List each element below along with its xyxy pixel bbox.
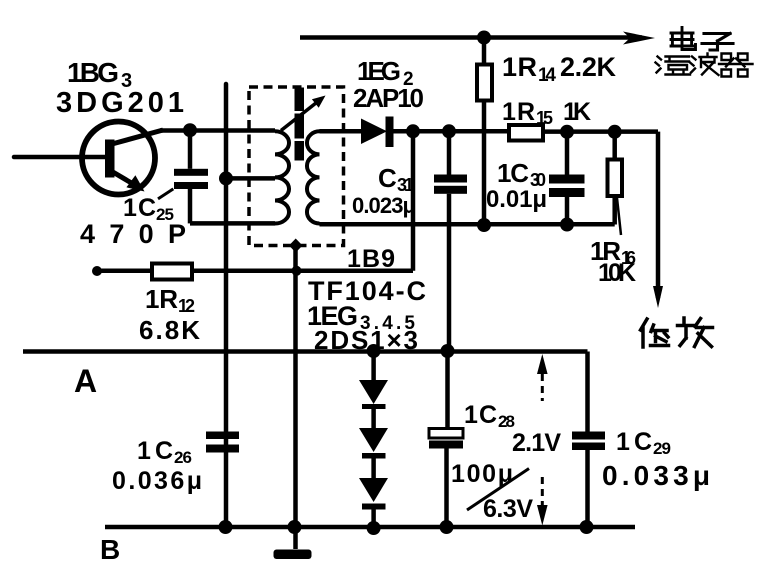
- emitter arrow: [112, 172, 134, 185]
- svg-text:0.023μ: 0.023μ: [352, 193, 416, 218]
- wire secondary top to diode: [320, 129, 362, 134]
- wire 1B9 feedback vertical: [411, 131, 416, 270]
- svg-text:1R: 1R: [502, 52, 537, 82]
- capacitor C30: [565, 132, 570, 175]
- transformer B9 shield box: [249, 87, 344, 246]
- label 子 (hand-drawn): [702, 34, 733, 51]
- core adjust arrow: [281, 101, 319, 131]
- resistor R15: [509, 125, 543, 141]
- node C30 bottom: [560, 218, 574, 232]
- transistor Q1 1BG3: [82, 122, 155, 195]
- label 器 (hand-drawn): [719, 54, 753, 77]
- node C31/line A: [441, 344, 455, 358]
- node C30 top: [560, 125, 574, 139]
- resistor R14: [482, 38, 487, 65]
- svg-text:2.2K: 2.2K: [560, 52, 617, 82]
- svg-text:1EG: 1EG: [357, 56, 401, 86]
- wire chain top: [371, 351, 376, 380]
- svg-text:1C: 1C: [497, 158, 529, 188]
- capacitor C26: [206, 432, 239, 440]
- wire shield to ground: [293, 246, 298, 550]
- diode D4: [359, 478, 388, 502]
- svg-text:10K: 10K: [598, 259, 636, 287]
- label 波 (hand-drawn): [690, 54, 719, 76]
- svg-text:1C: 1C: [616, 428, 652, 456]
- wire line B: [105, 525, 635, 530]
- svg-text:6.3V: 6.3V: [483, 495, 533, 523]
- node diode out: [406, 124, 420, 138]
- label 低 (hand-drawn): [641, 319, 669, 347]
- wire C25 bottom to primary: [190, 221, 275, 226]
- svg-text:B: B: [100, 534, 120, 565]
- wire tap to primary: [226, 176, 275, 181]
- leader R16 label: [617, 198, 621, 235]
- label 电 (hand-drawn): [671, 28, 696, 50]
- wire diode to R15: [394, 129, 510, 134]
- svg-text:C: C: [378, 163, 397, 193]
- transformer secondary winding: [307, 131, 320, 223]
- wire R12 rail: [97, 269, 413, 274]
- wire base lead: [14, 155, 105, 160]
- svg-text:0.036μ: 0.036μ: [112, 467, 202, 495]
- diode chain 1EG3.4.5 top node: [367, 344, 381, 358]
- node C28 bottom: [440, 520, 454, 534]
- svg-text:1K: 1K: [563, 98, 591, 126]
- svg-text:6.8K: 6.8K: [139, 315, 200, 345]
- wire collector: [112, 130, 163, 144]
- capacitor C28 electrolytic: [445, 351, 450, 429]
- node R14 bottom: [477, 218, 491, 232]
- transformer primary winding: [275, 131, 289, 223]
- svg-text:0.01μ: 0.01μ: [486, 186, 547, 213]
- svg-text:100μ: 100μ: [451, 460, 513, 488]
- svg-text:29: 29: [653, 439, 671, 458]
- svg-text:1C: 1C: [137, 437, 173, 465]
- slash 100u/6.3V: [467, 469, 529, 511]
- wire to 低放 arrow: [656, 132, 661, 298]
- node ground line: [288, 520, 302, 534]
- node C26 bottom: [219, 520, 233, 534]
- diode D2: [359, 380, 388, 404]
- svg-text:1C: 1C: [123, 194, 156, 222]
- wire top supply rail: [300, 35, 642, 40]
- transformer core (adjustable): [295, 88, 305, 112]
- diode D1 1EG2: [361, 119, 387, 145]
- wire bottom detector rail: [320, 222, 615, 227]
- svg-text:1R: 1R: [145, 284, 178, 314]
- measure arrow 2.1V lower: [541, 477, 544, 505]
- svg-text:12: 12: [178, 296, 195, 316]
- wire R14 bottom: [482, 101, 487, 226]
- svg-text:31: 31: [397, 175, 414, 195]
- label 滤 (hand-drawn): [656, 57, 691, 75]
- wire R12 left end: [92, 266, 102, 276]
- wire line A: [23, 349, 588, 354]
- resistor R16: [612, 132, 617, 160]
- svg-text:1C: 1C: [464, 401, 497, 429]
- wire collector rail: [160, 128, 275, 133]
- node shield/R12 crossing: [292, 266, 302, 276]
- wire R15 right to corner: [543, 129, 658, 134]
- svg-text:15: 15: [536, 108, 553, 128]
- node collector / C25: [183, 123, 197, 137]
- node shield diamond: [289, 239, 303, 253]
- diode D3: [359, 428, 388, 452]
- svg-text:A: A: [74, 363, 97, 399]
- capacitor C25: [188, 130, 193, 169]
- svg-text:2AP10: 2AP10: [353, 83, 424, 113]
- arrow to 电子滤波器: [623, 32, 655, 45]
- resistor R12: [152, 264, 192, 280]
- svg-text:2.1V: 2.1V: [512, 429, 561, 457]
- node tap: [219, 171, 233, 185]
- leader C25 label: [158, 189, 173, 199]
- node R16 top: [608, 125, 622, 139]
- node C29 bottom: [580, 520, 594, 534]
- wire line A corner down to C29: [585, 352, 590, 432]
- label 放 (hand-drawn): [678, 318, 713, 347]
- svg-text:14: 14: [538, 65, 556, 86]
- wire long vertical AGC line: [224, 84, 229, 527]
- svg-text:26: 26: [174, 448, 192, 467]
- svg-text:1R: 1R: [502, 98, 535, 126]
- node top rail / R14: [477, 31, 491, 45]
- svg-text:1B9: 1B9: [347, 245, 395, 273]
- measure arrow 2.1V upper: [537, 354, 548, 374]
- node C31 top: [442, 124, 456, 138]
- ground: [274, 550, 312, 560]
- svg-text:1BG: 1BG: [67, 57, 119, 88]
- node chain bottom: [367, 521, 381, 535]
- capacitor C31: [447, 131, 452, 174]
- capacitor C29: [572, 432, 605, 440]
